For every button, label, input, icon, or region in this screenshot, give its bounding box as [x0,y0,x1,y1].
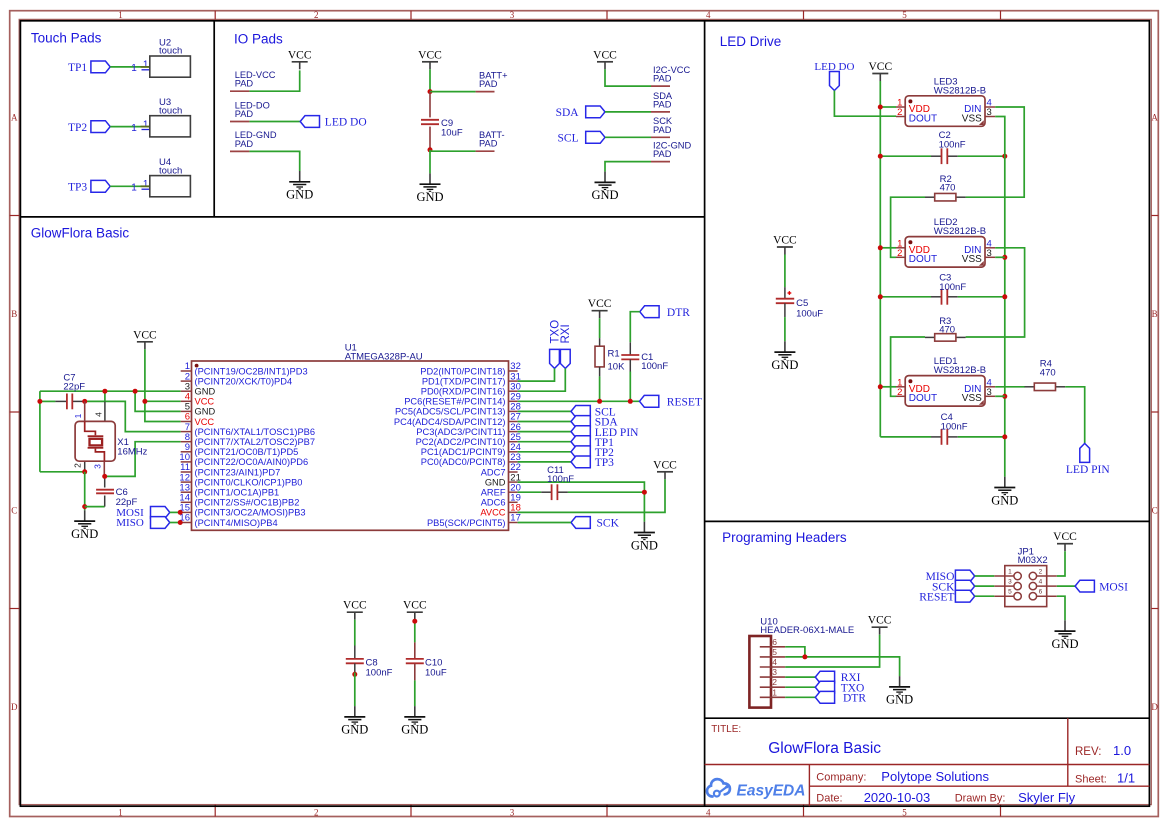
svg-text:VCC: VCC [195,397,215,407]
capacitor C8 top lead [354,646,356,659]
svg-text:2: 2 [897,387,902,398]
pad BATT- label [479,130,505,149]
capacitor C11 [541,465,574,500]
svg-text:3: 3 [1008,579,1012,586]
frame row letters right [1151,113,1158,712]
svg-text:10K: 10K [608,362,626,373]
wire GND net pin3 [40,390,181,392]
pin 1 of U3 (number and underline) [142,119,150,130]
wire C3 to VSS rail [958,296,1005,298]
svg-text:Date:: Date: [816,793,842,805]
svg-text:REV:: REV: [1075,746,1101,758]
net flag RESET (U1) [640,395,702,408]
wire TXO to pin31 [518,368,555,381]
pin 1 of U2 (number and underline) [142,60,150,71]
svg-text:B: B [1152,309,1158,319]
power symbol VCC (LED-VCC pad) [288,49,312,69]
U1 pin 5 GND [181,402,216,417]
svg-text:VSS: VSS [962,113,982,124]
svg-text:(PCINT22/OC0A/AIN0)PD6: (PCINT22/OC0A/AIN0)PD6 [195,457,309,467]
wire LED DO to LED3 DOUT [834,91,896,117]
ground symbol (LED VSS rail) [991,477,1018,508]
net flag TP1 (U1) [571,436,614,449]
svg-text:4: 4 [772,657,777,667]
svg-text:VCC: VCC [868,61,892,73]
U1 pin 27 PC4(ADC4/SDA/PCINT12) [394,412,521,427]
pad LED-GND pin [230,150,249,152]
LED LED1 WS2812B-B [896,356,995,406]
svg-text:TP3: TP3 [68,182,87,194]
capacitor C1 top lead [629,342,631,355]
resistor R1 bottom lead [599,367,601,377]
net flag TP1 [68,61,110,74]
svg-text:100nF: 100nF [641,361,668,372]
wire LED1 DIN to R4 [995,386,1025,388]
svg-text:Programing Headers: Programing Headers [722,530,847,545]
wire C2 to VSS rail [958,155,1005,157]
svg-text:(PCINT20/XCK/T0)PD4: (PCINT20/XCK/T0)PD4 [195,376,293,386]
svg-text:1: 1 [118,10,123,20]
ground symbol (U10) [886,676,913,707]
pin 1 of U4 (number and underline) [142,179,150,190]
junction C1 / RESET [628,399,633,404]
capacitor C9 [421,118,463,139]
svg-text:R1: R1 [608,349,620,360]
svg-text:6: 6 [1039,589,1043,596]
svg-text:WS2812B-B: WS2812B-B [934,226,986,237]
junction pin15 [178,510,183,515]
svg-text:2: 2 [72,463,82,468]
divider below Programing Headers (title block top) [705,717,1150,719]
divider left column / right column [704,21,706,806]
frame column ticks bottom [215,805,1000,817]
svg-text:4: 4 [706,10,711,20]
U1 pin 12 (PCINT0/CLKO/ICP1)PB0 [179,472,302,487]
capacitor C10 pin 1 lead [414,642,416,659]
svg-text:GND: GND [631,538,658,552]
wire VCC to C8 [354,620,356,646]
svg-text:PAD: PAD [479,79,498,89]
svg-text:Drawn By:: Drawn By: [955,793,1006,805]
net flag LED DO pennant [830,72,840,91]
U1 pin 23 PC0(ADC0/PCINT8) [421,452,521,467]
U1 pin 8 (PCINT7/XTAL2/TOSC2)PB7 [181,432,315,447]
svg-text:100nF: 100nF [941,421,968,432]
svg-text:(PCINT19/OC2B/INT1)PD3: (PCINT19/OC2B/INT1)PD3 [195,366,308,376]
svg-text:MOSI: MOSI [1099,581,1128,593]
wire C6 bottom to GND [85,506,105,508]
svg-text:VCC: VCC [653,459,677,471]
svg-text:470: 470 [1040,367,1056,378]
capacitor C1 bottom lead [629,359,631,371]
pad I2C-GND pin [651,161,670,163]
svg-text:VCC: VCC [288,49,312,61]
svg-text:WS2812B-B: WS2812B-B [934,365,986,376]
wire rail to LED1 VDD [880,386,896,388]
header U10 HEADER-06X1-MALE [749,617,854,708]
junction VSS rail LED2 VSS [1002,255,1007,260]
svg-text:A: A [1151,113,1158,123]
net flag TXO (U10) [815,681,864,694]
svg-text:PC5(ADC5/SCL/PCINT13): PC5(ADC5/SCL/PCINT13) [395,407,506,417]
svg-text:C: C [11,506,17,516]
pad SDA label [653,91,673,110]
ground symbol (LED-GND pad) [286,171,313,202]
svg-text:4: 4 [93,412,103,417]
svg-text:PC6(RESET#/PCINT14): PC6(RESET#/PCINT14) [404,397,505,407]
svg-text:GND: GND [771,358,798,372]
capacitor C9 pin 2 lead [429,127,431,150]
svg-text:6: 6 [772,637,777,647]
ground symbol (I2C) [591,172,618,203]
ground symbol (C10) [401,706,428,737]
wire pin25 to TP1 flag [518,441,571,443]
capacitor C5 bottom lead [784,303,786,317]
svg-text:2020-10-03: 2020-10-03 [864,790,931,805]
wire LED2 DIN to R3 [966,248,1025,337]
svg-text:PD1(TXD/PCINT17): PD1(TXD/PCINT17) [422,376,506,386]
wire R3 to LED1 DOUT [891,337,925,396]
svg-text:1.0: 1.0 [1113,743,1131,758]
svg-text:GND: GND [286,188,313,202]
svg-text:EasyEDA: EasyEDA [737,783,806,800]
svg-text:DOUT: DOUT [909,393,937,404]
svg-text:VCC: VCC [403,600,427,612]
pad SDA pin [651,111,670,113]
ground symbol (C11/AREF) [631,522,658,553]
net flag LED DO (IO Pads) [300,116,366,129]
EasyEDA logo [707,779,805,799]
net flag TP3 (U1) [571,456,614,469]
wire C4 to VSS rail [958,436,1005,438]
svg-text:PC2(ADC2/PCINT10): PC2(ADC2/PCINT10) [416,437,506,447]
wire crystal pin4 to GND net [104,391,106,401]
svg-text:2: 2 [314,10,319,20]
resistor R4 470 [1025,359,1066,391]
svg-text:1/1: 1/1 [1117,770,1135,785]
svg-text:LED PIN: LED PIN [1066,464,1110,476]
touch pad component U2 [150,38,191,78]
U1 pin 20 AREF [481,482,521,497]
net flag MISO (U1) [116,517,170,530]
svg-text:Skyler Fly: Skyler Fly [1018,790,1076,805]
wire LED-VCC pad to VCC [249,70,299,91]
wire VCC to C10 [414,620,416,643]
svg-text:DOUT: DOUT [909,113,937,124]
junction GND net at pin5 branch [133,389,138,394]
svg-text:GlowFlora Basic: GlowFlora Basic [768,740,881,757]
U1 pin 26 PC3(ADC3/PCINT11) [416,422,521,437]
power symbol VCC (LED rail) [868,61,892,81]
svg-text:HEADER-06X1-MALE: HEADER-06X1-MALE [760,625,854,636]
pad BATT- pin [476,150,495,152]
U1 pin 32 PD2(INT0/PCINT18) [420,361,521,376]
wire U10 pin4 to VCC [785,635,879,667]
svg-text:GND: GND [195,407,216,417]
svg-text:D: D [1151,702,1158,712]
svg-text:RESET: RESET [919,591,954,603]
svg-text:(PCINT2/SS#/OC1B)PB2: (PCINT2/SS#/OC1B)PB2 [195,498,300,508]
svg-text:2: 2 [772,677,777,687]
wire VCC to R1 [599,318,601,338]
svg-text:3: 3 [510,10,515,20]
svg-text:16MHz: 16MHz [117,446,147,457]
U1 pin 14 (PCINT2/SS#/OC1B)PB2 [179,493,299,508]
power symbol VCC (R1 pull-up) [588,298,612,318]
frame column numbers bottom [118,807,907,817]
junction VCC rail pin4 [142,399,147,404]
wire DTR to C1 [630,312,640,343]
U1 pin 10 (PCINT22/OC0A/AIN0)PD6 [179,452,308,467]
wire SCK to JP1 pin3 [975,585,995,587]
wire RXI to pin30 [518,368,566,391]
wire pin28 to SCL flag [518,410,571,412]
svg-text:(PCINT23/AIN1)PD7: (PCINT23/AIN1)PD7 [195,467,281,477]
title block Company row [816,769,989,784]
svg-text:10uF: 10uF [425,667,447,678]
net flag TP2 (U1) [571,446,614,459]
junction crystal pin3 / C6 / XTAL2 [102,474,107,479]
svg-text:VCC: VCC [133,329,157,341]
svg-text:1: 1 [1008,569,1012,576]
wire RESET to JP1 pin5 [975,595,995,597]
pad SCK label [653,116,673,135]
svg-text:AVCC: AVCC [480,508,505,518]
pad LED-DO pin [230,121,249,123]
U1 pin 11 (PCINT23/AIN1)PD7 [180,462,280,477]
wire rail to C2 [880,155,931,157]
ground symbol (C8) [341,706,368,737]
U1 pin 16 (PCINT4/MISO)PB4 [179,513,277,528]
capacitor C10 [406,657,447,678]
wire U10 pin1 to DTR [785,696,815,698]
svg-text:100uF: 100uF [796,308,823,319]
U1 pin 28 PC5(ADC5/SCL/PCINT13) [395,402,521,417]
svg-text:GND: GND [401,723,428,737]
junction BATT+ node [428,89,433,94]
net flag RESET (JP1) [919,590,974,603]
capacitor C3 100nF [931,272,966,304]
resistor R2 470 [925,174,966,201]
capacitor C9 pin 1 lead [429,92,431,118]
svg-text:(PCINT1/OC1A)PB1: (PCINT1/OC1A)PB1 [195,488,280,498]
svg-text:3: 3 [987,107,992,118]
wire C10 to GND [414,680,416,706]
svg-text:5: 5 [902,807,907,817]
junction VSS rail LED1 VSS [1002,394,1007,399]
svg-text:PC0(ADC0/PCINT8): PC0(ADC0/PCINT8) [421,457,506,467]
svg-text:RXI: RXI [560,324,572,343]
svg-text:10uF: 10uF [441,128,463,139]
svg-text:Polytope Solutions: Polytope Solutions [881,769,989,784]
net flag TP3 [68,180,110,193]
svg-text:1: 1 [143,60,149,71]
svg-text:WS2812B-B: WS2812B-B [934,85,986,96]
wire U10 pin5 to GND [785,657,899,676]
junction C7 left / GND drop [37,399,42,404]
svg-text:GND: GND [195,387,216,397]
power symbol VCC (C8) [343,600,367,620]
capacitor C5 top lead [784,287,786,299]
U1 pin 18 AVCC [480,503,521,518]
wire RESET net [518,400,640,402]
svg-text:PAD: PAD [235,139,254,149]
svg-text:5: 5 [902,10,907,20]
U1 pin 7 (PCINT6/XTAL1/TOSC1)PB6 [181,422,315,437]
svg-text:DTR: DTR [667,307,690,319]
wire U10 pin6 to pin5 net [785,647,805,657]
svg-text:PD0(RXD/PCINT16): PD0(RXD/PCINT16) [421,387,506,397]
svg-text:3: 3 [987,248,992,259]
wire MISO to pin16 [170,522,181,524]
wire AVCC to VCC [518,479,665,512]
power symbol VCC (I2C) [593,49,617,69]
wire rail to LED2 VDD [880,247,896,249]
svg-text:1: 1 [143,119,149,130]
svg-text:2: 2 [314,807,319,817]
capacitor C4 100nF [931,412,968,445]
U1 pin 24 PC1(ADC1/PCINT9) [421,442,521,457]
title block REV [1075,743,1131,758]
wire XTAL2 net pin8 [105,442,181,477]
svg-text:SDA: SDA [556,107,580,119]
svg-text:GND: GND [991,493,1018,507]
U1 pin 1 (PCINT19/OC2B/INT1)PD3 [181,361,308,376]
svg-text:100nF: 100nF [547,474,574,485]
wire BATT- node to GND [429,150,431,174]
svg-text:(PCINT6/XTAL1/TOSC1)PB6: (PCINT6/XTAL1/TOSC1)PB6 [195,427,316,437]
net flag MOSI (U1) [116,507,170,519]
svg-text:touch: touch [159,105,182,116]
wire C11 to GND drop [568,491,645,493]
pad LED-DO label [235,100,270,119]
net flag SCK (JP1) [932,580,975,593]
wire pin24 to TP2 flag [518,451,571,453]
net flag DTR [640,306,690,319]
wire MOSI to pin15 [170,511,181,513]
wire LED1 VSS to rail [995,395,1005,397]
U1 pin 3 GND [181,381,216,396]
svg-text:PAD: PAD [235,79,254,89]
pin line of U2 [141,66,161,68]
svg-text:2: 2 [897,107,902,118]
svg-text:5: 5 [772,647,777,657]
junction rail LED3 VDD [878,105,883,110]
svg-text:4: 4 [1039,579,1043,586]
power symbol VCC (U1 supply) [133,329,157,349]
wire VCC rail (LED Drive) [879,81,881,437]
U1 pin 13 (PCINT1/OC1A)PB1 [179,482,279,497]
ground symbol (crystal) [71,510,98,541]
frame column ticks top [215,11,1000,20]
wire MISO to JP1 pin1 [975,575,995,577]
net flag SCK (U1) [571,517,620,530]
LED LED3 WS2812B-B [896,76,995,126]
svg-text:1: 1 [131,183,137,194]
capacitor C2 100nF [931,130,966,164]
U1 pin 9 (PCINT21/OC0B/T1)PD5 [181,442,299,457]
ground symbol (JP1) [1051,620,1078,651]
svg-text:LED Drive: LED Drive [720,34,782,49]
wire BATT+ node to pad [430,91,476,93]
pad I2C-VCC label [653,65,690,84]
capacitor C8 bottom lead [354,663,356,672]
wire rail to LED3 VDD [880,106,896,108]
wire LED3 VSS to rail [995,117,1005,477]
touch pad component U4 [150,157,191,197]
svg-text:DTR: DTR [843,692,866,704]
junction rail LED2 VDD [878,245,883,250]
net flag SCL [558,131,605,144]
U1 pin 29 PC6(RESET#/PCINT14) [404,392,521,407]
svg-text:1: 1 [131,123,137,134]
svg-text:VCC: VCC [588,298,612,310]
wire LED-DO pad to LED DO flag [249,121,300,123]
pad SCK pin [651,136,670,138]
title block grid lines [705,718,1150,806]
svg-text:PC1(ADC1/PCINT9): PC1(ADC1/PCINT9) [421,447,506,457]
wire TP3 to touch pad [110,185,140,187]
U1 pin 31 PD1(TXD/PCINT17) [422,371,521,386]
svg-text:(PCINT7/XTAL2/TOSC2)PB7: (PCINT7/XTAL2/TOSC2)PB7 [195,437,316,447]
wire LED-GND pad to GND [249,151,299,171]
svg-text:D: D [11,702,18,712]
U1 pin 2 (PCINT20/XCK/T0)PD4 [181,371,292,386]
power symbol VCC (battery) [418,49,442,69]
net flag MOSI (JP1) [1075,580,1128,593]
power symbol VCC (AVCC) [653,459,677,479]
svg-text:470: 470 [939,324,955,335]
frame row ticks right [1151,216,1158,609]
wire R2 to LED2 DOUT [891,197,925,257]
svg-text:VCC: VCC [418,49,442,61]
svg-text:PC4(ADC4/SDA/PCINT12): PC4(ADC4/SDA/PCINT12) [394,417,506,427]
frame column numbers top [118,10,907,20]
divider below LED Drive [705,520,1150,522]
capacitor C10 pin 2 lead [414,663,416,680]
net flag MISO (JP1) [926,570,975,583]
wire LED3 DIN to R2 [966,107,1025,197]
U1 pin 15 (PCINT3/OC2A/MOSI)PB3 [179,503,305,518]
svg-text:VCC: VCC [593,49,617,61]
net flag SDA [556,106,605,119]
capacitor C6 [96,476,137,508]
svg-text:PC3(ADC3/PCINT11): PC3(ADC3/PCINT11) [416,427,505,437]
svg-text:TP1: TP1 [68,62,87,74]
svg-text:2: 2 [897,248,902,259]
pad BATT+ label [479,70,508,89]
svg-text:VCC: VCC [868,615,892,627]
wire pin17 to SCK flag [518,522,571,524]
svg-text:TITLE:: TITLE: [711,724,741,735]
net flag SDA (U1) [571,416,618,429]
pad LED-GND label [235,130,277,149]
wire pin21 GND [518,482,645,522]
svg-text:SCL: SCL [558,133,579,145]
U1 pin 17 PB5(SCK/PCINT5) [427,513,521,528]
svg-text:22pF: 22pF [63,382,85,393]
U1 pin 21 GND [485,472,521,487]
resistor R3 470 [925,316,966,341]
svg-text:ATMEGA328P-AU: ATMEGA328P-AU [345,352,423,363]
junction crystal pin2 / GND run [82,469,87,474]
svg-text:Touch Pads: Touch Pads [31,31,102,46]
svg-text:GND: GND [886,693,913,707]
U1 pin 22 ADC7 [481,462,521,477]
svg-text:VSS: VSS [962,254,982,265]
junction BATT- node [428,147,433,152]
wire U10 pin3 to RXI [785,676,815,678]
